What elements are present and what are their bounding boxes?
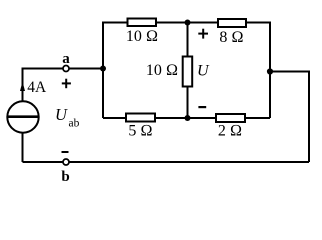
svg-text:10 Ω: 10 Ω (126, 28, 158, 45)
svg-text:U: U (55, 105, 68, 124)
polarity - for U (198, 106, 206, 108)
node b macron (62, 151, 69, 153)
svg-text:10 Ω: 10 Ω (146, 62, 178, 79)
svg-text:b: b (61, 169, 69, 185)
wire: top rail (103, 22, 270, 24)
wire: bottom rail of bridge (103, 117, 270, 119)
current source 4A circle (7, 101, 38, 132)
polarity + for Uab (62, 79, 71, 89)
wire: source bottom lead (22, 133, 24, 163)
polarity + for U (198, 29, 208, 39)
resistor R 5ohm bottom-left (126, 114, 155, 122)
svg-text:4A: 4A (27, 79, 47, 96)
wire: bottom outer rail (23, 161, 310, 163)
svg-text:8 Ω: 8 Ω (219, 29, 243, 46)
junction dot middle bottom (185, 115, 191, 121)
current arrow (up) (20, 82, 25, 92)
resistor R 2ohm bottom-right (216, 114, 245, 122)
svg-text:U: U (197, 63, 210, 80)
node a terminal (63, 66, 69, 72)
current source bar (7, 115, 38, 118)
resistor R 10ohm top (128, 19, 157, 27)
junction dot left rail (100, 66, 106, 72)
wire: left rail (102, 22, 104, 119)
resistor R 8ohm top-right (218, 19, 246, 27)
svg-text:ab: ab (69, 118, 80, 130)
wire: right outer loop (270, 72, 309, 163)
resistor R 10ohm middle vertical (183, 57, 193, 87)
junction dot right rail (267, 68, 273, 74)
svg-text:5 Ω: 5 Ω (128, 123, 152, 140)
wire: right rail (269, 22, 271, 119)
svg-text:a: a (62, 51, 70, 67)
junction dot middle top (185, 20, 191, 26)
svg-text:2 Ω: 2 Ω (218, 123, 242, 140)
wire: node a lead from source to left rail (23, 69, 104, 102)
wire: middle branch vertical (187, 23, 189, 119)
node b terminal (63, 159, 69, 165)
